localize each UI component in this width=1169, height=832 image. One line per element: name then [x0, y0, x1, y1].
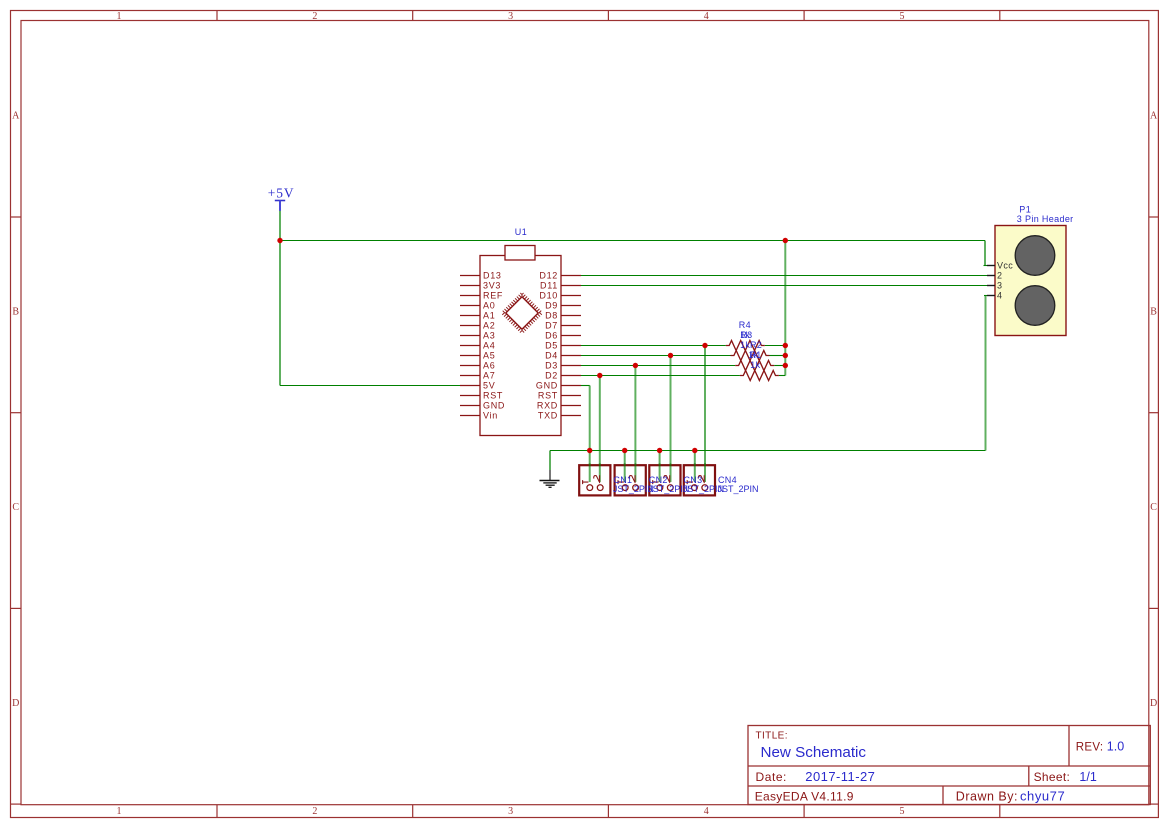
wire CN4 pin2 vertical from D5: [704, 346, 706, 464]
op-amp U1 (Arduino board symbol): [460, 227, 581, 436]
U1 pin REF (left): [460, 295, 480, 297]
U1 pin Vin (left): [460, 415, 480, 417]
CN3 pin 1 circle: [657, 485, 663, 491]
svg-text:U1: U1: [515, 227, 528, 237]
U1 pin A5 (left): [460, 355, 480, 357]
svg-text:Vcc: Vcc: [997, 261, 1013, 271]
P1 hole 1: [1015, 236, 1055, 276]
svg-text:2: 2: [312, 11, 317, 22]
resistor R3: [731, 330, 770, 361]
svg-text:R1: R1: [749, 350, 761, 360]
wire CN2 pin2 vertical from D3: [634, 366, 636, 464]
wire R1 output: [779, 375, 785, 377]
wire R4 output: [765, 345, 786, 347]
wire CN2 pin1 vertical: [624, 451, 626, 464]
svg-text:D12: D12: [539, 271, 558, 281]
CN3 pin 1 wire tip: [659, 463, 661, 482]
CN4 pin 1 wire tip: [694, 463, 696, 482]
node D5 junction: [702, 343, 707, 348]
svg-text:chyu77: chyu77: [1020, 789, 1065, 804]
U1 pin RXD (right): [561, 405, 581, 407]
node +5V junction: [277, 238, 282, 243]
svg-text:New Schematic: New Schematic: [761, 744, 867, 761]
svg-text:D3: D3: [545, 361, 558, 371]
CN4 pin number 2: [698, 475, 704, 483]
svg-text:GND: GND: [483, 401, 505, 411]
ground: [540, 470, 560, 487]
svg-text:RST: RST: [483, 391, 503, 401]
svg-text:5: 5: [900, 806, 905, 817]
svg-text:A0: A0: [483, 301, 495, 311]
svg-text:3V3: 3V3: [483, 281, 501, 291]
P1 pin Vcc stub: [987, 265, 995, 267]
wire 5V pin horizontal: [280, 385, 460, 387]
svg-text:TITLE:: TITLE:: [756, 730, 788, 741]
U1 pin D10 (right): [561, 295, 581, 297]
svg-text:3: 3: [997, 281, 1002, 291]
svg-text:1k: 1k: [750, 360, 760, 370]
svg-text:3: 3: [508, 11, 513, 22]
svg-text:5: 5: [900, 11, 905, 22]
U1 pin A7 (left): [460, 375, 480, 377]
U1 pin A1 (left): [460, 315, 480, 317]
svg-text:4: 4: [997, 291, 1002, 301]
svg-text:Vin: Vin: [483, 411, 498, 421]
CN4 pin 1 circle: [692, 485, 698, 491]
svg-text:2: 2: [312, 806, 317, 817]
node D4 junction: [668, 353, 673, 358]
CN4 pin number 1: [687, 480, 693, 484]
svg-text:REF: REF: [483, 291, 503, 301]
wire D12 to P1 pin2: [581, 275, 987, 277]
svg-text:D5: D5: [545, 341, 558, 351]
U1 pin D2 (right): [561, 375, 581, 377]
svg-text:1/1: 1/1: [1079, 770, 1096, 784]
U1 pin RST (right): [561, 395, 581, 397]
CN1 pin 2 wire tip: [599, 463, 601, 482]
CN3 pin 2 circle: [667, 485, 673, 491]
svg-text:B: B: [12, 306, 19, 317]
U1 pin A6 (left): [460, 365, 480, 367]
svg-text:P1: P1: [1019, 204, 1031, 214]
power +5V: [268, 186, 295, 211]
svg-text:A4: A4: [483, 341, 495, 351]
U1 pin RST (left): [460, 395, 480, 397]
wire CN4 pin1 vertical: [694, 451, 696, 464]
svg-text:D4: D4: [545, 351, 558, 361]
node R2 output junction: [783, 363, 788, 368]
node GND rail junction 2: [622, 448, 627, 453]
connector P1 3 Pin Header: [987, 204, 1074, 335]
svg-text:RXD: RXD: [537, 401, 558, 411]
CN4 pin 2 circle: [702, 485, 708, 491]
U1 pin GND (right): [561, 385, 581, 387]
CN2 pin 2 circle: [633, 485, 639, 491]
svg-text:1: 1: [117, 11, 122, 22]
P1 pin 3 stub: [987, 285, 995, 287]
svg-text:A3: A3: [483, 331, 495, 341]
svg-text:5V: 5V: [483, 381, 495, 391]
wire R2 output: [774, 365, 785, 367]
CN4 pin 2 wire tip: [704, 463, 706, 482]
resistor R4: [726, 320, 765, 351]
svg-text:2017-11-27: 2017-11-27: [805, 769, 875, 784]
svg-text:4: 4: [704, 11, 709, 22]
connector CN2 JST_2PIN: [615, 463, 646, 495]
P1 hole 2: [1015, 286, 1055, 326]
svg-text:R3: R3: [740, 330, 752, 340]
resistor R1: [740, 350, 779, 381]
wire R3 output: [770, 355, 786, 357]
wire GND rail horizontal: [550, 450, 986, 452]
wire D11 to P1 pin3: [581, 285, 987, 287]
CN3 pin 2 wire tip: [670, 463, 672, 482]
node D2 junction: [597, 373, 602, 378]
node R4 output junction: [783, 343, 788, 348]
wire CN1 pin2 vertical from D2: [599, 376, 601, 464]
CN2 pin number 1: [618, 480, 624, 484]
svg-text:D13: D13: [483, 271, 502, 281]
U1 usb connector box: [505, 246, 535, 261]
wire ground drop: [549, 451, 551, 471]
node GND rail junction 1: [587, 448, 592, 453]
U1 pin D3 (right): [561, 365, 581, 367]
svg-text:D8: D8: [545, 311, 558, 321]
svg-text:A: A: [1150, 110, 1158, 121]
U1 pin A4 (left): [460, 345, 480, 347]
svg-text:JST_2PIN: JST_2PIN: [718, 484, 759, 494]
wire P1 Vcc stub link: [984, 265, 988, 267]
CN2 pin 1 circle: [622, 485, 628, 491]
node GND rail junction 4: [692, 448, 697, 453]
CN1 pin 1 wire tip: [589, 463, 591, 482]
svg-text:D11: D11: [540, 281, 558, 291]
node D3 junction: [633, 363, 638, 368]
node pull-up rail top junction: [783, 238, 788, 243]
connector CN4 JST_2PIN: [684, 463, 715, 495]
U1 pin A0 (left): [460, 305, 480, 307]
svg-text:A5: A5: [483, 351, 495, 361]
wire +5V rail horizontal: [280, 240, 985, 242]
svg-text:D6: D6: [545, 331, 558, 341]
svg-text:D10: D10: [539, 291, 558, 301]
svg-text:C: C: [12, 502, 19, 513]
U1 pin D11 (right): [561, 285, 581, 287]
svg-text:A7: A7: [483, 371, 495, 381]
svg-text:3 Pin Header: 3 Pin Header: [1017, 214, 1074, 224]
U1 pin D8 (right): [561, 315, 581, 317]
svg-text:REV:: REV:: [1076, 741, 1104, 753]
wire P1 Vcc drop: [984, 241, 986, 266]
svg-text:3: 3: [508, 806, 513, 817]
svg-text:1k: 1k: [740, 340, 750, 350]
svg-text:2: 2: [997, 271, 1002, 281]
svg-text:Drawn By:: Drawn By:: [956, 790, 1018, 804]
U1 pin A3 (left): [460, 335, 480, 337]
U1 pin D4 (right): [561, 355, 581, 357]
svg-text:RST: RST: [538, 391, 558, 401]
wire CN3 pin1 vertical: [659, 451, 661, 464]
U1 body: [480, 256, 561, 436]
svg-text:A: A: [12, 110, 20, 121]
wire U1 GND to rail: [581, 385, 590, 387]
svg-text:A1: A1: [483, 311, 495, 321]
CN1 pin 1 circle: [587, 485, 593, 491]
svg-text:1: 1: [117, 806, 122, 817]
wire P1 pin4 link: [984, 295, 987, 297]
wire D3 row: [581, 365, 735, 367]
node GND rail junction 3: [657, 448, 662, 453]
svg-text:D9: D9: [545, 301, 558, 311]
U1 pin D9 (right): [561, 305, 581, 307]
svg-text:A6: A6: [483, 361, 495, 371]
U1 pin D12 (right): [561, 275, 581, 277]
svg-text:GND: GND: [536, 381, 558, 391]
U1 pin D13 (left): [460, 275, 480, 277]
U1 pin GND (left): [460, 405, 480, 407]
CN1 pin number 1: [583, 480, 589, 484]
U1 pin D6 (right): [561, 335, 581, 337]
U1 pin A2 (left): [460, 325, 480, 327]
connector CN1 JST_2PIN: [579, 463, 610, 495]
wire +5V vertical to U1 5V pin: [279, 211, 281, 386]
U1 pin D7 (right): [561, 325, 581, 327]
resistor R2: [735, 340, 774, 371]
CN1 pin number 2: [594, 475, 600, 483]
svg-text:R4: R4: [739, 320, 751, 330]
CN3 pin number 1: [653, 480, 659, 484]
svg-text:B: B: [1150, 306, 1157, 317]
svg-text:R2: R2: [750, 340, 762, 350]
svg-text:4: 4: [704, 806, 709, 817]
svg-text:1.0: 1.0: [1107, 739, 1124, 753]
U1 pin 3V3 (left): [460, 285, 480, 287]
U1 chip diamond: [503, 294, 541, 332]
svg-text:EasyEDA V4.11.9: EasyEDA V4.11.9: [755, 790, 854, 804]
P1 pin 2 stub: [987, 275, 995, 277]
wire CN3 pin2 vertical from D4: [670, 356, 672, 464]
wire D4 row: [581, 355, 731, 357]
U1 pin D5 (right): [561, 345, 581, 347]
node R3 output junction: [783, 353, 788, 358]
P1 body: [995, 226, 1066, 336]
svg-text:+5V: +5V: [268, 186, 295, 201]
svg-text:D2: D2: [545, 371, 558, 381]
wire D2 row: [581, 375, 740, 377]
svg-text:D7: D7: [545, 321, 558, 331]
U1 pin TXD (right): [561, 415, 581, 417]
svg-text:D: D: [12, 698, 19, 709]
wire D5 row: [581, 345, 726, 347]
wire CN1 pin1 vertical: [589, 386, 591, 464]
P1 pin 4 stub: [987, 295, 995, 297]
title block: [748, 726, 1150, 805]
svg-text:Date:: Date:: [756, 770, 787, 784]
svg-text:D: D: [1150, 698, 1157, 709]
U1 pin 5V (left): [460, 385, 480, 387]
CN2 pin 1 wire tip: [624, 463, 626, 482]
CN3 pin number 2: [664, 475, 670, 483]
svg-text:TXD: TXD: [538, 411, 558, 421]
CN2 pin 2 wire tip: [634, 463, 636, 482]
wire P1 pin4 vertical to GND rail: [985, 296, 987, 451]
CN2 pin number 2: [629, 475, 635, 483]
svg-text:Sheet:: Sheet:: [1034, 770, 1071, 784]
CN1 pin 2 circle: [597, 485, 603, 491]
connector CN3 JST_2PIN: [649, 463, 680, 495]
svg-text:A2: A2: [483, 321, 495, 331]
wire pull-up rail vertical: [784, 241, 786, 376]
svg-text:C: C: [1150, 502, 1157, 513]
